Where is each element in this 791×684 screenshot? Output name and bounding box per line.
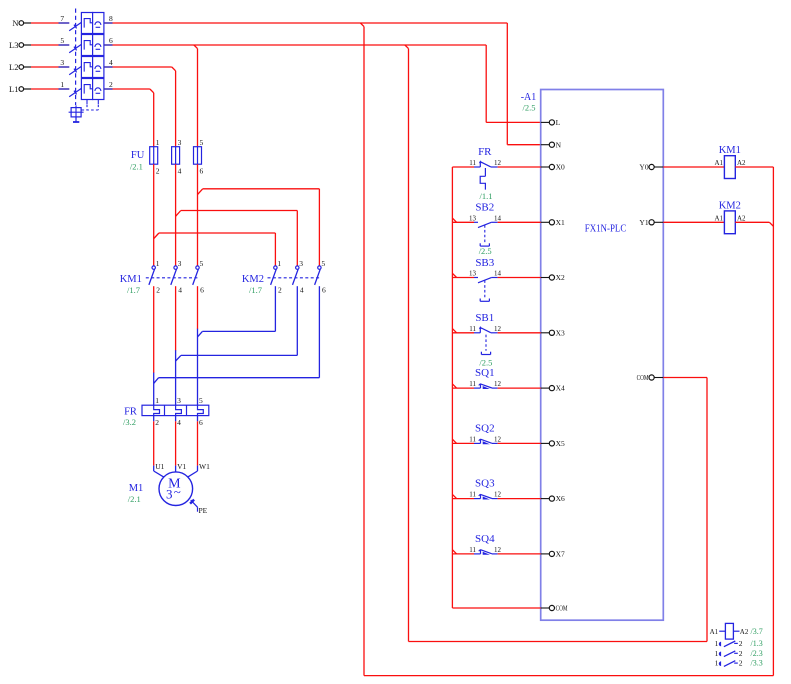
- svg-text:COM: COM: [637, 373, 649, 382]
- wire phase3 to KM2 pole5: [198, 189, 203, 195]
- PLC terminal X5: [541, 442, 550, 444]
- breaker QF release linkage: [86, 100, 88, 105]
- breaker QF pole L1 blade: [69, 88, 81, 96]
- contact FR thermal release: [484, 168, 486, 176]
- svg-text:1: 1: [715, 659, 719, 668]
- contactor KM1 main contact 1-2: [152, 266, 155, 269]
- svg-text:A1: A1: [714, 214, 723, 222]
- svg-text:11: 11: [469, 491, 476, 499]
- wire PLC COM output loop: [663, 377, 707, 379]
- wire: [24, 66, 31, 68]
- svg-text:A1: A1: [714, 159, 723, 167]
- wire KM1 pole6 down to FR: [197, 286, 199, 329]
- svg-text:3: 3: [177, 396, 181, 405]
- svg-text:11: 11: [469, 546, 476, 554]
- svg-text:12: 12: [494, 491, 502, 499]
- svg-text:12: 12: [494, 546, 502, 554]
- svg-text:/1.3: /1.3: [751, 639, 763, 648]
- svg-text:1: 1: [156, 138, 160, 147]
- overload relay FR element 3-4: [176, 405, 182, 415]
- svg-text:6: 6: [200, 166, 204, 175]
- breaker QF pole L2 blade: [69, 66, 81, 74]
- wire: [24, 44, 31, 46]
- contactor KM1 main contact 5-6: [196, 266, 199, 269]
- fuse FU pole 5-6: [194, 147, 202, 165]
- wire: [104, 44, 113, 46]
- svg-text:SQ4: SQ4: [475, 533, 495, 545]
- svg-text:Y1: Y1: [639, 218, 648, 227]
- svg-text:5: 5: [200, 138, 204, 147]
- svg-text:SB2: SB2: [475, 202, 494, 214]
- fuse FU pole 1-2: [150, 147, 158, 165]
- wire L2 phase: [113, 66, 172, 68]
- svg-text:2: 2: [156, 285, 160, 294]
- svg-text:6: 6: [199, 418, 203, 427]
- wire: [153, 164, 155, 266]
- svg-text:/1.7: /1.7: [249, 285, 262, 295]
- wire: [153, 416, 155, 422]
- wire input common rail: [451, 167, 453, 608]
- breaker QF pole L3 terminal: [19, 43, 24, 48]
- svg-text:N: N: [556, 140, 562, 149]
- wire KM2 pole2 to phase3: [274, 286, 276, 331]
- svg-text:KM2: KM2: [242, 274, 264, 285]
- wire KM2 pole6 to phase1: [318, 286, 320, 378]
- svg-text:/2.1: /2.1: [128, 494, 141, 504]
- crossref KM coil A1-A2: [719, 630, 725, 632]
- wire: [197, 416, 199, 422]
- svg-text:5: 5: [321, 259, 325, 268]
- breaker QF pole N magnetic box: [93, 13, 104, 34]
- breaker QF pole L2 magnetic box: [93, 57, 104, 78]
- wire: [104, 88, 113, 90]
- svg-text:1: 1: [277, 259, 281, 268]
- svg-text:X7: X7: [556, 550, 565, 559]
- svg-text:4: 4: [109, 58, 113, 67]
- PLC terminal X3: [541, 332, 550, 334]
- svg-text:3: 3: [299, 259, 303, 268]
- svg-text:2: 2: [739, 649, 743, 658]
- svg-text:M1: M1: [129, 483, 144, 494]
- svg-text:4: 4: [177, 418, 181, 427]
- svg-text:SQ2: SQ2: [475, 422, 495, 434]
- svg-text:/3.7: /3.7: [751, 627, 763, 636]
- PLC terminal N: [541, 144, 550, 146]
- wire: [175, 164, 177, 266]
- svg-text:KM2: KM2: [719, 201, 741, 212]
- wire N phase drop to bottom loop: [363, 27, 365, 676]
- svg-text:2: 2: [109, 80, 113, 89]
- svg-text:5: 5: [199, 396, 203, 405]
- svg-text:/2.5: /2.5: [479, 358, 492, 368]
- svg-text:3: 3: [60, 58, 64, 67]
- PLC U-A1 box: [541, 90, 664, 621]
- svg-text:FX1N-PLC: FX1N-PLC: [585, 223, 627, 234]
- breaker QF operating mechanism: [71, 108, 81, 117]
- PLC terminal COM: [541, 607, 550, 609]
- svg-text:5: 5: [200, 259, 204, 268]
- svg-text:8: 8: [109, 14, 113, 23]
- svg-text:13: 13: [469, 214, 477, 222]
- svg-text:/1.1: /1.1: [480, 191, 493, 201]
- PLC terminal X0: [541, 166, 550, 168]
- svg-text:12: 12: [494, 325, 502, 333]
- wire KM1 pole2 down to FR: [153, 286, 155, 373]
- wire KM1 pole4 down to FR: [175, 286, 177, 350]
- PLC terminal Y0: [649, 164, 654, 169]
- svg-text:X6: X6: [556, 494, 565, 503]
- wire L3 down to PLC L: [485, 45, 487, 122]
- wire: [197, 164, 199, 266]
- svg-text:A2: A2: [740, 628, 749, 636]
- ground PE: [191, 500, 198, 507]
- svg-text:2: 2: [739, 639, 743, 648]
- fuse FU pole 3-4: [172, 147, 180, 165]
- svg-text:1: 1: [156, 259, 160, 268]
- svg-text:11: 11: [469, 325, 476, 333]
- svg-text:A1: A1: [710, 628, 719, 636]
- svg-text:/1.7: /1.7: [127, 285, 140, 295]
- breaker QF pole N thermal box: [81, 13, 92, 34]
- svg-text:L3: L3: [9, 40, 18, 50]
- svg-text:11: 11: [469, 380, 476, 388]
- svg-text:X1: X1: [556, 218, 565, 227]
- svg-text:12: 12: [494, 380, 502, 388]
- contactor KM2 main contact 1-2: [274, 266, 277, 269]
- svg-text:2: 2: [155, 418, 159, 427]
- breaker QF pole L3 blade: [69, 44, 81, 52]
- wire KM2 pole4 to phase2: [296, 286, 298, 355]
- breaker QF pole L1 magnetic box: [93, 79, 104, 100]
- svg-text:4: 4: [178, 166, 182, 175]
- svg-text:6: 6: [200, 285, 204, 294]
- PLC terminal COM: [649, 375, 654, 380]
- contactor KM2 main contact 5-6: [318, 266, 321, 269]
- wire: [24, 88, 31, 90]
- svg-text:PE: PE: [199, 506, 208, 515]
- svg-text:SB3: SB3: [475, 257, 494, 269]
- PLC terminal X4: [541, 387, 550, 389]
- svg-text:14: 14: [494, 270, 502, 278]
- svg-text:12: 12: [494, 435, 502, 443]
- contactor KM1 main contact 3-4: [174, 266, 177, 269]
- overload relay FR element 1-2: [154, 405, 160, 415]
- wire: [104, 66, 113, 68]
- wire KM1 A2 to return: [735, 166, 773, 168]
- svg-text:/3.3: /3.3: [751, 659, 763, 668]
- svg-text:X4: X4: [556, 384, 565, 393]
- crossref KM contact 1-2 /3.3: [719, 661, 721, 666]
- breaker QF pole L3 magnetic box: [93, 35, 104, 56]
- svg-text:~: ~: [174, 484, 181, 499]
- overload relay FR body: [142, 405, 209, 415]
- svg-text:U1: U1: [155, 462, 164, 471]
- svg-text:5: 5: [60, 36, 64, 45]
- svg-text:6: 6: [322, 285, 326, 294]
- svg-text:11: 11: [469, 159, 476, 167]
- svg-text:/3.2: /3.2: [123, 417, 136, 427]
- svg-text:1: 1: [715, 639, 719, 648]
- wire phase2 to KM2 pole3: [176, 211, 181, 217]
- node L3-branch junction: [405, 45, 409, 49]
- PLC terminal Y1: [649, 220, 654, 225]
- wire motor lead V1: [175, 466, 177, 472]
- svg-text:L: L: [556, 118, 561, 127]
- node L3-fuse junction: [194, 45, 198, 49]
- svg-text:/2.1: /2.1: [130, 161, 143, 171]
- overload relay FR element 5-6: [198, 405, 204, 415]
- svg-text:Y0: Y0: [639, 163, 648, 172]
- svg-text:X3: X3: [556, 328, 565, 337]
- node N-branch junction: [360, 23, 364, 27]
- svg-text:/2.3: /2.3: [751, 649, 763, 658]
- motor M1: [159, 472, 193, 506]
- PLC terminal X7: [541, 553, 550, 555]
- breaker QF pole L1 terminal: [19, 87, 24, 92]
- svg-text:SB1: SB1: [475, 312, 494, 324]
- svg-text:FR: FR: [478, 146, 492, 158]
- svg-text:2: 2: [156, 166, 160, 175]
- svg-text:KM1: KM1: [719, 145, 741, 156]
- crossref KM contact 1-2 /2.3: [719, 652, 721, 657]
- svg-text:L2: L2: [9, 62, 18, 72]
- svg-text:A2: A2: [737, 214, 746, 222]
- breaker QF pole L2 thermal box: [81, 57, 92, 78]
- svg-text:N: N: [12, 18, 18, 28]
- wire bottom N return: [364, 675, 773, 677]
- wire: [175, 416, 177, 422]
- svg-text:/2.5: /2.5: [523, 103, 536, 113]
- svg-text:X5: X5: [556, 439, 565, 448]
- svg-text:2: 2: [739, 659, 743, 668]
- svg-text:FU: FU: [131, 150, 145, 161]
- svg-text:7: 7: [60, 14, 64, 23]
- svg-text:1: 1: [60, 80, 64, 89]
- PLC terminal X2: [541, 277, 550, 279]
- breaker QF linkage dashed line: [75, 9, 77, 106]
- svg-text:1: 1: [715, 649, 719, 658]
- svg-text:3: 3: [178, 138, 182, 147]
- wire L1 phase: [113, 88, 150, 90]
- svg-text:COM: COM: [556, 604, 568, 613]
- contactor KM2 main contact 3-4: [296, 266, 299, 269]
- svg-text:3: 3: [178, 259, 182, 268]
- svg-text:A2: A2: [737, 159, 746, 167]
- svg-text:3: 3: [166, 486, 173, 501]
- svg-text:X0: X0: [556, 163, 565, 172]
- svg-text:13: 13: [469, 270, 477, 278]
- svg-text:L1: L1: [9, 84, 18, 94]
- PLC terminal X1: [541, 221, 550, 223]
- wire L3 drop to COM loop: [408, 49, 410, 642]
- wire N phase top: [113, 22, 508, 24]
- svg-text:KM1: KM1: [120, 274, 142, 285]
- wire motor lead W1: [197, 466, 199, 471]
- svg-text:1: 1: [155, 396, 159, 405]
- crossref KM contact 1-2 /1.3: [719, 642, 721, 647]
- svg-text:X2: X2: [556, 273, 565, 282]
- svg-text:14: 14: [494, 214, 502, 222]
- svg-text:2: 2: [278, 285, 282, 294]
- wire L3 phase top: [113, 44, 487, 46]
- breaker QF pole L2 terminal: [19, 65, 24, 70]
- svg-text:6: 6: [109, 36, 113, 45]
- svg-text:/2.5: /2.5: [479, 246, 492, 256]
- svg-text:SQ1: SQ1: [475, 367, 495, 379]
- wire motor lead U1: [153, 466, 155, 471]
- PLC terminal X6: [541, 498, 550, 500]
- contactor KM2 linkage: [268, 277, 322, 279]
- wire KM2 A2 to return: [735, 221, 769, 223]
- svg-text:4: 4: [178, 285, 182, 294]
- wire return rail: [772, 167, 774, 676]
- svg-text:V1: V1: [177, 462, 186, 471]
- breaker QF pole N terminal: [19, 21, 24, 26]
- svg-text:11: 11: [469, 435, 476, 443]
- wire: [104, 22, 113, 24]
- wire: [24, 22, 31, 24]
- wire N phase down to PLC N: [506, 23, 508, 145]
- contactor KM1 linkage: [146, 277, 200, 279]
- svg-text:12: 12: [494, 159, 502, 167]
- wire phase1 to KM2 pole1: [154, 233, 159, 239]
- svg-text:-A1: -A1: [521, 92, 537, 103]
- breaker QF pole L3 thermal box: [81, 35, 92, 56]
- svg-text:SQ3: SQ3: [475, 478, 495, 490]
- svg-text:4: 4: [300, 285, 304, 294]
- PLC terminal L: [541, 121, 550, 123]
- svg-text:W1: W1: [199, 462, 210, 471]
- breaker QF pole N blade: [69, 22, 81, 30]
- breaker QF pole L1 thermal box: [81, 79, 92, 100]
